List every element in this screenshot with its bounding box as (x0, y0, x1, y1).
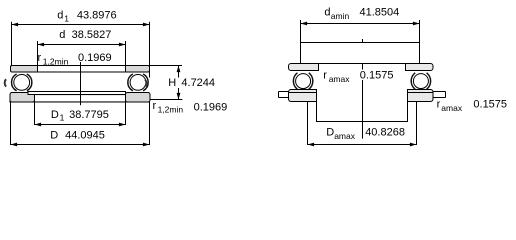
left bearing: top washer (289, 64, 319, 71)
svg-text:4.7244: 4.7244 (181, 77, 215, 89)
svg-text:0.1969: 0.1969 (78, 52, 112, 64)
label r 1,2min 0.1969 (upper) (38, 51, 114, 66)
svg-text:38.7795: 38.7795 (69, 109, 109, 121)
right bearing: bottom washer (408, 90, 434, 102)
right bearing: top washer (406, 64, 434, 71)
dimension D: line with arrows (11, 143, 150, 147)
left bearing: bottom washer (289, 90, 317, 102)
centerline right figure (362, 39, 364, 139)
dimension D1: extension lines (35, 102, 126, 125)
dimension Da max: extension lines (308, 102, 417, 145)
svg-text:amax: amax (329, 74, 351, 84)
dimension D: extension lines (11, 102, 150, 145)
svg-text:r: r (153, 100, 157, 112)
cage edge wedge far left (5, 79, 6, 86)
label r amax 0.1575 (right) (437, 98, 507, 113)
ball left (14, 75, 30, 91)
dimension H: vertical line with arrows (177, 66, 181, 100)
cage edge wedge far right (145, 80, 147, 87)
dimension d: extension lines (38, 41, 126, 65)
ball right (130, 75, 146, 91)
bottom washer (housing washer) (10, 92, 150, 103)
shaft shoulder block (301, 43, 420, 64)
label r 1,2min 0.1969 (lower right) (153, 100, 228, 115)
dimension D1: line with arrows (35, 123, 126, 127)
svg-text:0.1575: 0.1575 (473, 98, 507, 110)
svg-text:d: d (57, 10, 63, 22)
dimension H: extension lines (150, 66, 183, 100)
dimension da min: extension lines (301, 20, 420, 64)
svg-text:amin: amin (331, 11, 350, 21)
cage arcs right ball (128, 74, 148, 91)
label Da max 40.8268 (326, 127, 405, 141)
svg-text:0.1969: 0.1969 (194, 102, 228, 114)
right bearing: ball (413, 74, 428, 89)
dimension Da max: line with arrows (308, 143, 417, 147)
label da min 41.8504 (324, 7, 399, 21)
label d1 43.8976 (57, 10, 116, 24)
left bearing: ball (296, 74, 311, 89)
svg-text:1: 1 (60, 113, 65, 123)
svg-text:D: D (51, 109, 59, 121)
label D1 38.7795 (51, 109, 109, 123)
right bearing: cage arcs (411, 73, 430, 90)
dimension d1: extension lines (12, 22, 150, 78)
label H 4.7244 (166, 77, 215, 89)
centerline left figure (80, 53, 82, 106)
cage arcs left ball (12, 74, 32, 91)
svg-text:38.5827: 38.5827 (72, 29, 112, 41)
housing step contour (317, 102, 408, 123)
label D 44.0945 (50, 130, 105, 142)
svg-text:41.8504: 41.8504 (360, 7, 400, 19)
svg-text:r: r (323, 69, 327, 81)
dimension d: line with arrows (38, 43, 126, 47)
svg-text:0.1575: 0.1575 (360, 69, 394, 81)
left bearing: cage arcs (293, 73, 312, 90)
svg-text:43.8976: 43.8976 (77, 10, 117, 22)
svg-text:44.0945: 44.0945 (65, 130, 105, 142)
top washer (shaft washer) (11, 65, 150, 72)
svg-text:amax: amax (441, 103, 463, 113)
label d 38.5827 (59, 29, 111, 41)
svg-text:d: d (59, 29, 65, 41)
svg-text:40.8268: 40.8268 (365, 127, 405, 139)
dimension da min: line with arrows (301, 22, 420, 26)
svg-text:1,2min: 1,2min (43, 56, 69, 66)
label r amax 0.1575 (middle) (323, 69, 394, 84)
right shaft tab (433, 92, 446, 98)
svg-text:D: D (326, 127, 334, 139)
svg-text:H: H (168, 77, 176, 89)
svg-text:r: r (38, 52, 42, 64)
left shaft tab (279, 92, 289, 98)
svg-text:r: r (437, 98, 441, 110)
svg-text:d: d (324, 7, 330, 19)
svg-text:amax: amax (334, 131, 356, 141)
svg-text:1,2min: 1,2min (158, 104, 184, 114)
svg-text:1: 1 (64, 13, 69, 23)
svg-text:D: D (50, 130, 58, 142)
dimension d1: line with arrows (12, 23, 150, 27)
